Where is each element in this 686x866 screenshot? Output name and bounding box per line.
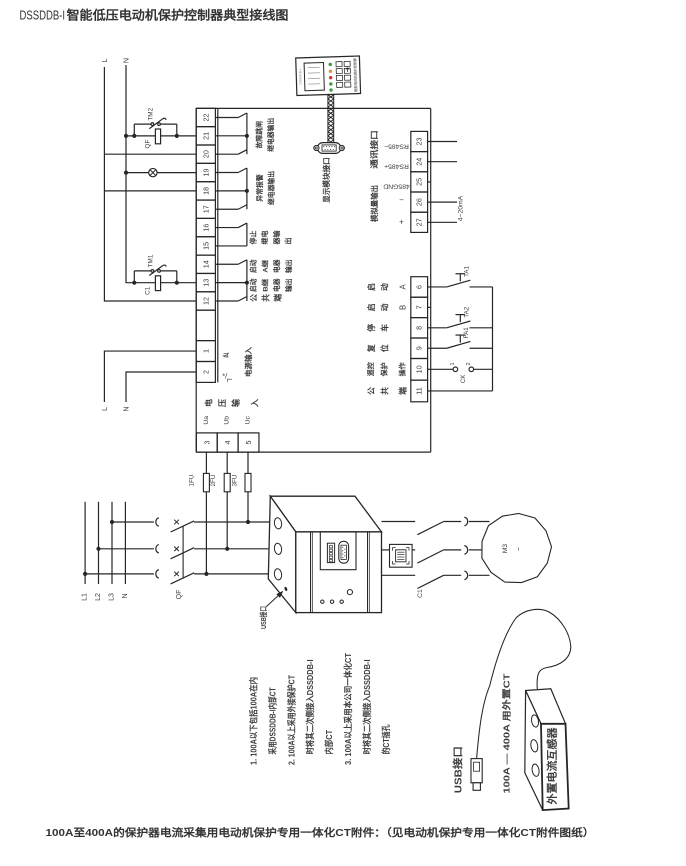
svg-text:输: 输 <box>231 398 241 407</box>
svg-text:停止: 停止 <box>248 231 257 245</box>
svg-text:压: 压 <box>218 399 227 407</box>
svg-text:19: 19 <box>201 169 210 177</box>
svg-text:RS485−: RS485− <box>384 143 409 150</box>
svg-text:A继: A继 <box>260 260 269 273</box>
svg-text:启: 启 <box>366 303 376 311</box>
svg-text:TM2: TM2 <box>147 107 154 120</box>
svg-text:100A — 400A 用外置CT: 100A — 400A 用外置CT <box>501 673 512 794</box>
svg-text:公: 公 <box>250 294 259 302</box>
svg-text:L3: L3 <box>109 593 116 601</box>
svg-text:13: 13 <box>201 279 210 287</box>
svg-text:TM1: TM1 <box>147 254 154 267</box>
svg-text:电: 电 <box>203 399 213 407</box>
svg-text:显示模块接口: 显示模块接口 <box>321 157 331 203</box>
svg-text:L1: L1 <box>82 593 89 601</box>
svg-text:2. 100A以上采用外接保护CT: 2. 100A以上采用外接保护CT <box>286 675 296 765</box>
svg-text:DSSDDB-I: DSSDDB-I <box>20 9 66 23</box>
svg-text:100A至400A的保护器电流采集用电动机保护专用一体化CT: 100A至400A的保护器电流采集用电动机保护专用一体化CT附件：（见电动机保护… <box>46 826 595 839</box>
svg-text:启动: 启动 <box>249 259 258 273</box>
svg-text:+: + <box>399 217 404 226</box>
svg-text:采用DSSDDB-I内部CT: 采用DSSDDB-I内部CT <box>267 688 277 756</box>
svg-text:复: 复 <box>366 344 376 353</box>
svg-text:外置电流互感器: 外置电流互感器 <box>546 727 559 806</box>
svg-text:USB接口: USB接口 <box>451 746 464 793</box>
svg-text:9: 9 <box>415 346 424 350</box>
svg-text:3: 3 <box>202 441 211 445</box>
svg-text:继电器输出: 继电器输出 <box>266 171 275 205</box>
svg-text:启动: 启动 <box>249 278 258 292</box>
svg-text:1: 1 <box>201 349 210 353</box>
svg-text:保护: 保护 <box>380 362 389 377</box>
svg-text:2: 2 <box>466 362 472 365</box>
svg-text:1. 100A以下包括100A在内: 1. 100A以下包括100A在内 <box>249 677 259 765</box>
svg-text:C1: C1 <box>417 589 424 598</box>
svg-text:N: N <box>122 593 129 598</box>
svg-text:端: 端 <box>398 387 408 395</box>
svg-text:10: 10 <box>415 365 424 373</box>
svg-text:端: 端 <box>272 294 282 302</box>
svg-text:RS485+: RS485+ <box>384 162 409 169</box>
svg-text:3FU: 3FU <box>232 474 239 486</box>
svg-text:电器: 电器 <box>272 278 281 292</box>
svg-text:动: 动 <box>380 303 390 311</box>
svg-text:1FU: 1FU <box>189 474 196 486</box>
svg-text:N: N <box>122 406 131 411</box>
svg-text:输出: 输出 <box>284 278 293 292</box>
svg-text:B继: B继 <box>260 279 269 292</box>
svg-text:15: 15 <box>201 242 210 250</box>
svg-text:22: 22 <box>201 113 210 121</box>
svg-text:CK: CK <box>460 374 467 383</box>
svg-text:公: 公 <box>367 387 376 395</box>
svg-text:模拟量输出: 模拟量输出 <box>370 185 379 222</box>
svg-text:时将其二次侧接入DSSDDB-I: 时将其二次侧接入DSSDDB-I <box>362 660 372 755</box>
svg-text:QF: QF <box>176 590 183 600</box>
svg-text:2: 2 <box>201 370 210 374</box>
svg-text:20: 20 <box>201 150 210 158</box>
svg-text:~: ~ <box>514 546 523 551</box>
svg-text:27: 27 <box>415 218 424 226</box>
svg-text:电源输入: 电源输入 <box>244 346 253 377</box>
svg-text:25: 25 <box>415 178 424 186</box>
svg-text:遥控: 遥控 <box>366 362 375 376</box>
svg-text:FA1: FA1 <box>463 327 470 339</box>
svg-text:24: 24 <box>415 158 424 166</box>
svg-text:11: 11 <box>415 387 424 394</box>
svg-text:时将其二次侧接入DSSDDB-I: 时将其二次侧接入DSSDDB-I <box>305 660 315 755</box>
svg-text:USB接口: USB接口 <box>259 606 268 629</box>
svg-text:共: 共 <box>261 294 271 302</box>
svg-text:485GND: 485GND <box>383 183 410 190</box>
svg-text:车: 车 <box>380 324 390 332</box>
svg-text:B: B <box>399 305 408 310</box>
svg-text:位: 位 <box>380 344 390 352</box>
svg-text:继电器输出: 继电器输出 <box>266 118 275 152</box>
svg-text:启: 启 <box>366 283 376 291</box>
svg-text:TA2: TA2 <box>464 306 471 317</box>
svg-text:智能低压电动机保护控制器典型接线图: 智能低压电动机保护控制器典型接线图 <box>65 8 288 23</box>
svg-text:4: 4 <box>223 441 232 445</box>
svg-text:1: 1 <box>450 362 456 365</box>
svg-text:Uc: Uc <box>245 416 252 425</box>
svg-text:动: 动 <box>380 283 390 291</box>
svg-text:异常报警: 异常报警 <box>255 174 264 202</box>
svg-text:C1: C1 <box>145 286 152 295</box>
svg-text:TA1: TA1 <box>464 265 471 276</box>
svg-text:出: 出 <box>284 238 293 245</box>
svg-text:18: 18 <box>201 187 210 195</box>
svg-text:内部CT: 内部CT <box>324 730 334 755</box>
svg-text:4−20mA: 4−20mA <box>457 195 464 221</box>
svg-text:5: 5 <box>244 441 253 445</box>
svg-text:器输: 器输 <box>272 230 281 246</box>
svg-text:故障跳闸: 故障跳闸 <box>255 121 264 149</box>
svg-text:12: 12 <box>201 297 210 305</box>
svg-text:操作: 操作 <box>398 362 407 376</box>
svg-text:3. 100A以上采用本公司一体化CT: 3. 100A以上采用本公司一体化CT <box>343 653 353 765</box>
svg-text:DSSDDB-I: DSSDDB-I <box>298 69 302 84</box>
svg-text:Ub: Ub <box>224 416 231 425</box>
svg-text:M3: M3 <box>502 544 509 553</box>
svg-text:23: 23 <box>415 138 424 146</box>
svg-text:N: N <box>122 58 131 63</box>
svg-text:继电: 继电 <box>260 231 269 245</box>
svg-text:输出: 输出 <box>284 259 293 273</box>
svg-text:入: 入 <box>250 399 259 408</box>
svg-text:6: 6 <box>415 285 424 289</box>
svg-text:共: 共 <box>380 387 390 395</box>
svg-text:A: A <box>399 284 408 290</box>
svg-text:7: 7 <box>415 305 424 309</box>
svg-text:21: 21 <box>201 132 210 140</box>
svg-text:Ua: Ua <box>203 416 210 425</box>
svg-text:停: 停 <box>366 324 376 332</box>
svg-text:2FU: 2FU <box>210 474 217 486</box>
svg-text:L2: L2 <box>95 593 102 601</box>
svg-text:通讯接口: 通讯接口 <box>369 130 379 169</box>
svg-text:8: 8 <box>415 326 424 330</box>
svg-text:26: 26 <box>415 198 424 206</box>
svg-text:16: 16 <box>201 224 210 232</box>
svg-text:17: 17 <box>201 205 210 213</box>
svg-text:−: − <box>399 195 404 204</box>
svg-text:的CT插孔: 的CT插孔 <box>381 724 391 755</box>
svg-text:电器: 电器 <box>272 259 281 273</box>
svg-text:14: 14 <box>201 260 210 268</box>
svg-text:L: L <box>100 59 109 63</box>
svg-text:QF: QF <box>145 139 152 148</box>
svg-text:L: L <box>100 407 109 411</box>
